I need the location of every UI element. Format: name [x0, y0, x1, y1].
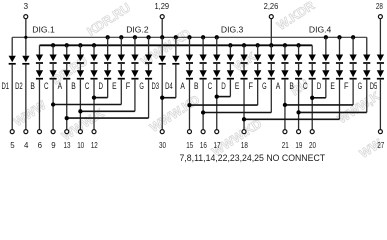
wire between LEDs col 3 [38, 63, 40, 70]
svg-text:A: A [276, 81, 281, 91]
wire L1 right corner down to G seg [366, 37, 368, 54]
wire col 1 to pin 5 [11, 64, 13, 130]
pin 18 terminal [242, 130, 246, 134]
LED C upper [49, 55, 56, 62]
svg-text:C: C [208, 81, 213, 91]
wire col 23 to pin 20 [311, 79, 313, 130]
pin 5 terminal [10, 130, 14, 134]
wire col 4 to pin 9 [52, 79, 54, 130]
wire bus L1 to diode col 24 [325, 37, 327, 54]
junction bus L1 col 9 [119, 35, 123, 39]
wire between LEDs col 15 [202, 63, 204, 70]
svg-text:D5: D5 [370, 81, 378, 91]
watermark (decorative, light gray diagonal repeated text) [11, 0, 385, 161]
junction bus L1 col 12 [160, 35, 164, 39]
wire col 12 to pin 30 [161, 64, 163, 130]
junction bus L2 col 6 [78, 43, 82, 47]
svg-text:5: 5 [10, 140, 15, 150]
svg-text:15: 15 [186, 140, 193, 150]
LED B lower [295, 70, 302, 77]
pin 19 terminal [297, 130, 301, 134]
wire col 9 down to jog [120, 79, 122, 105]
wire col 24 down to jog [325, 79, 327, 98]
LED C upper [90, 55, 97, 62]
svg-text:1,29: 1,29 [154, 1, 169, 11]
LED A lower [186, 70, 193, 77]
svg-text:C: C [85, 81, 90, 91]
wire between LEDs col 5 [66, 63, 68, 70]
junction pin 3 on L1 [24, 36, 27, 39]
pin 16 terminal [201, 130, 205, 134]
pin 9 terminal [51, 130, 55, 134]
svg-text:B: B [30, 81, 35, 91]
wire between LEDs col 10 [134, 63, 136, 70]
junction col 12 net [160, 96, 164, 100]
wire segment net col 26 to col 21 [285, 104, 353, 106]
LED F upper [131, 55, 138, 62]
LED E lower [240, 70, 247, 77]
wire between LEDs col 20 [270, 63, 272, 70]
svg-text:C: C [303, 81, 308, 91]
wire bus L2 to diode col 17 [229, 45, 231, 54]
wire bus L1 to diode col 8 [107, 37, 109, 54]
LED B lower [199, 70, 206, 77]
svg-text:D: D [99, 81, 104, 91]
svg-text:4: 4 [24, 140, 29, 150]
svg-text:6: 6 [38, 140, 43, 150]
wire segment net col 24 to col 23 [312, 97, 326, 99]
wire col 3 to pin 6 [38, 79, 40, 130]
wire bus L1 to diode col 10 [134, 37, 136, 54]
pin 4 terminal [24, 130, 28, 134]
pin 2,26 terminal [269, 15, 273, 19]
pin 30 terminal [160, 130, 164, 134]
LED B lower [77, 70, 84, 77]
junction bus L1 col 11 [146, 35, 150, 39]
LED C upper [309, 55, 316, 62]
wire col 19 down to jog [257, 79, 259, 105]
junction bus L1 col 25 [337, 35, 341, 39]
junction bus L1 col 26 [351, 35, 355, 39]
LED G lower [145, 70, 152, 77]
LED A upper [63, 55, 70, 62]
junction col 23 net [310, 96, 314, 100]
wire col 7 to pin 12 [93, 79, 95, 130]
junction bus L2 col 7 [92, 43, 96, 47]
junction bus L2 col 20 [269, 43, 273, 47]
LED E lower [336, 70, 343, 77]
wire between LEDs col 11 [148, 63, 150, 70]
wire pin 2,26 to bus L2 [270, 19, 272, 46]
LED G lower [363, 70, 370, 77]
wire segment net col 13 to col 12 [162, 97, 176, 99]
svg-text:D: D [317, 81, 322, 91]
LED D lower [322, 70, 329, 77]
junction col 21 net [283, 103, 287, 107]
LED D5 lower [377, 70, 384, 77]
junction bus L2 col 21 [283, 43, 287, 47]
LED B upper [77, 55, 84, 62]
svg-text:10: 10 [77, 140, 84, 150]
wire col 26 down to jog [352, 79, 354, 105]
wire bus L1 to diode col 16 [216, 37, 218, 54]
wire bus L1 to diode col 12 [161, 37, 163, 56]
pin 28 terminal [378, 15, 382, 19]
svg-text:DIG.3: DIG.3 [221, 24, 244, 34]
svg-text:27: 27 [377, 140, 384, 150]
wire bus L2 to diode col 22 [298, 45, 300, 54]
svg-text:D: D [221, 81, 226, 91]
svg-text:G: G [358, 81, 363, 91]
junction bus L1 col 10 [133, 35, 137, 39]
svg-text:E: E [235, 81, 240, 91]
wire bus L1 to diode col 11 [148, 37, 150, 54]
junction col 18 net [242, 117, 246, 121]
LED D4 (single) [172, 56, 179, 62]
svg-text:F: F [344, 81, 349, 91]
pin 13 terminal [65, 130, 69, 134]
LED D2 (single) [22, 56, 29, 62]
wire col 10 down to jog [134, 79, 136, 112]
bottom pin number labels [10, 140, 384, 150]
junction col 14 net [187, 103, 191, 107]
wire bus L2 to diode col 18 [243, 45, 245, 54]
LED D upper [104, 55, 111, 62]
wire segment net col 11 to col 5 [67, 117, 149, 119]
wire col 6 to pin 10 [79, 79, 81, 130]
junction col 4 net [51, 102, 55, 106]
junction col 6 net [78, 109, 82, 113]
wire col 14 to pin 15 [188, 79, 190, 130]
svg-text:9: 9 [51, 140, 56, 150]
junction bus L1 col 8 [106, 35, 110, 39]
wire segment net col 8 to col 7 [94, 97, 108, 99]
wire segment net col 27 to col 22 [299, 111, 367, 113]
svg-text:C: C [44, 81, 49, 91]
LED F lower [349, 70, 356, 77]
LED G upper [145, 55, 152, 62]
wire L1 left corner down to D1 [11, 37, 13, 56]
wire bus L2 to diode col 7 [93, 45, 95, 54]
bus common anode line L2 [39, 44, 312, 46]
junction col 22 net [296, 110, 300, 114]
LED D upper [322, 55, 329, 62]
wire pin 28 to D5 [379, 19, 381, 55]
svg-text:F: F [249, 81, 254, 91]
junction col 5 net [65, 116, 69, 120]
wire bus L1 to diode col 26 [352, 37, 354, 54]
wire bus L1 to diode col 9 [120, 37, 122, 54]
LED G upper [363, 55, 370, 62]
LED G lower [268, 70, 275, 77]
wire between LEDs col 22 [298, 63, 300, 70]
LED E upper [240, 55, 247, 62]
svg-text:16: 16 [200, 140, 207, 150]
wire L2 left corner down to B seg [38, 45, 40, 54]
wire bus L2 to diode col 4 [52, 45, 54, 54]
junction bus L1 col 24 [324, 35, 328, 39]
svg-text:DIG.4: DIG.4 [309, 24, 332, 34]
LED F upper [254, 55, 261, 62]
svg-text:B: B [194, 81, 199, 91]
svg-text:DIG.1: DIG.1 [32, 24, 55, 34]
svg-text:B: B [71, 81, 76, 91]
svg-text:3: 3 [24, 1, 29, 11]
svg-text:13: 13 [64, 140, 71, 150]
svg-text:17: 17 [214, 140, 221, 150]
wire bus L2 to diode col 19 [257, 45, 259, 54]
LED D5 upper [377, 55, 384, 62]
junction bus L2 col 22 [296, 43, 300, 47]
pin 3 terminal [24, 15, 28, 19]
wire between LEDs col 23 [311, 63, 313, 70]
wire segment net col 9 to col 4 [53, 104, 121, 106]
pin 17 terminal [215, 130, 219, 134]
wire segment net col 17 to col 16 [217, 96, 231, 98]
svg-text:2,26: 2,26 [264, 1, 279, 11]
wire bus L1 to diode col 15 [202, 37, 204, 54]
junction bus L1 col 16 [215, 35, 219, 39]
LED B lower [36, 70, 43, 77]
junction bus L2 col 17 [228, 43, 232, 47]
wire col 15 to pin 16 [202, 79, 204, 130]
wire between LEDs col 17 [229, 63, 231, 70]
wire between LEDs col 7 [93, 63, 95, 70]
wire col 21 to pin 21 [284, 79, 286, 130]
LED C lower [49, 70, 56, 77]
wire between LEDs col 25 [338, 63, 340, 70]
svg-text:D4: D4 [165, 81, 173, 91]
wire bus L1 to diode col 13 [175, 37, 177, 56]
LED C lower [90, 70, 97, 77]
pin 20 terminal [310, 130, 314, 134]
junction bus L2 col 4 [51, 43, 55, 47]
wire col 5 to pin 13 [66, 79, 68, 130]
wire bus L2 to diode col 20 [270, 45, 272, 54]
LED G upper [268, 55, 275, 62]
svg-text:DIG.2: DIG.2 [126, 24, 149, 34]
segment name labels row [2, 81, 378, 91]
wire col 25 down to jog [338, 79, 340, 120]
junction bus L2 col 19 [256, 43, 260, 47]
wire col 2 to pin 4 [25, 64, 27, 130]
wire L2 right corner down to C seg [311, 45, 313, 54]
wire bus L1 to diode col 14 [188, 37, 190, 54]
pin 6 terminal [37, 130, 41, 134]
wire col 16 to pin 17 [216, 79, 218, 130]
svg-text:E: E [330, 81, 335, 91]
LED A upper [186, 55, 193, 62]
svg-text:G: G [139, 81, 144, 91]
wire between LEDs col 14 [188, 63, 190, 70]
pin 12 terminal [92, 130, 96, 134]
svg-text:30: 30 [159, 140, 166, 150]
wire between LEDs col 18 [243, 63, 245, 70]
wire segment net col 10 to col 6 [80, 110, 135, 112]
wire col 11 down to jog [148, 79, 150, 118]
pin 10 terminal [78, 130, 82, 134]
wire between LEDs col 24 [325, 63, 327, 70]
pin 15 terminal [187, 130, 191, 134]
LED E lower [118, 70, 125, 77]
junction col 15 net [201, 110, 205, 114]
junction col 16 net [215, 94, 219, 98]
wire col 28 to pin 27 [379, 79, 381, 130]
LED B upper [295, 55, 302, 62]
LED E upper [118, 55, 125, 62]
svg-text:21: 21 [282, 140, 289, 150]
junction bus L2 col 18 [242, 43, 246, 47]
svg-text:12: 12 [91, 140, 98, 150]
junction bus L2 col 5 [65, 43, 69, 47]
LED B upper [199, 55, 206, 62]
wire bus L1 to diode col 25 [338, 37, 340, 54]
LED C lower [309, 70, 316, 77]
pin 27 terminal [378, 130, 382, 134]
junction bus L1 col 14 [187, 35, 191, 39]
svg-text:19: 19 [295, 140, 302, 150]
wire between LEDs col 21 [284, 63, 286, 70]
wire between LEDs col 4 [52, 63, 54, 70]
LED D upper [227, 55, 234, 62]
wire col 20 down to jog [270, 79, 272, 113]
svg-text:D3: D3 [152, 81, 160, 91]
svg-text:A: A [180, 81, 185, 91]
wire segment net col 19 to col 14 [189, 104, 257, 106]
svg-text:D2: D2 [15, 81, 23, 91]
wire between LEDs col 9 [120, 63, 122, 70]
bus DIG.1/2 common anode line L1 [12, 36, 367, 38]
wire col 13 down to jog [175, 64, 177, 98]
LED F upper [349, 55, 356, 62]
LED C upper [213, 55, 220, 62]
wire between LEDs col 27 [366, 63, 368, 70]
svg-text:F: F [126, 81, 131, 91]
LED A lower [63, 70, 70, 77]
wire between LEDs col 8 [107, 63, 109, 70]
wire col 27 down to jog [366, 79, 368, 113]
pin 1,29 terminal [160, 15, 164, 19]
wire col 22 to pin 19 [298, 79, 300, 130]
svg-text:D1: D1 [2, 81, 10, 91]
svg-text:18: 18 [241, 140, 248, 150]
LED D1 (single) [9, 56, 16, 62]
LED B upper [36, 55, 43, 62]
svg-text:B: B [289, 81, 294, 91]
LED A lower [281, 70, 288, 77]
wire between LEDs col 26 [352, 63, 354, 70]
LED D lower [227, 70, 234, 77]
wire between LEDs col 6 [79, 63, 81, 70]
junction bus L1 col 15 [201, 35, 205, 39]
wire bus L2 to diode col 5 [66, 45, 68, 54]
svg-text:20: 20 [309, 140, 316, 150]
svg-text:E: E [112, 81, 117, 91]
wire bus L2 to diode col 21 [284, 45, 286, 54]
wire col 8 down to jog [107, 79, 109, 98]
wire between LEDs col 16 [216, 63, 218, 70]
wire segment net col 25 to col 18 [244, 118, 339, 120]
wire col 18 to pin 18 [243, 79, 245, 130]
wire between LEDs col 28 [379, 63, 381, 70]
junction col 7 net [92, 95, 96, 99]
LED D lower [104, 70, 111, 77]
LED F lower [254, 70, 261, 77]
LED C lower [213, 70, 220, 77]
junction bus L1 col 13 [174, 35, 178, 39]
LED A upper [281, 55, 288, 62]
LED E upper [336, 55, 343, 62]
wire bus L2 to diode col 6 [79, 45, 81, 54]
svg-text:7,8,11,14,22,23,24,25 NO CONNE: 7,8,11,14,22,23,24,25 NO CONNECT [180, 153, 326, 163]
pin 21 terminal [283, 130, 287, 134]
LED F lower [131, 70, 138, 77]
wire col 17 down to jog [229, 79, 231, 97]
svg-text:28: 28 [376, 1, 383, 11]
LED D3 (single) [159, 56, 166, 62]
svg-text:G: G [262, 81, 267, 91]
wire pin 1,29 to bus L1 [161, 19, 163, 38]
wire between LEDs col 19 [257, 63, 259, 70]
wire pin 3 to D2 [25, 19, 27, 56]
wire segment net col 20 to col 15 [203, 112, 271, 114]
svg-text:A: A [58, 81, 63, 91]
